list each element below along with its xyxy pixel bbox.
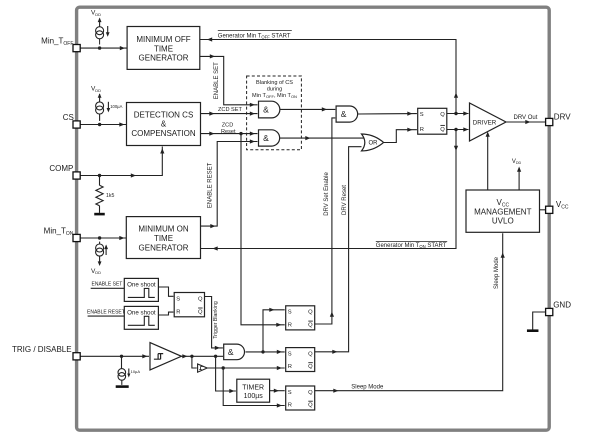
svg-text:R: R xyxy=(288,323,292,329)
svg-text:&: & xyxy=(161,120,167,129)
pin DRV xyxy=(546,118,553,125)
wire OR output to latch R xyxy=(384,128,417,143)
svg-text:Q: Q xyxy=(308,390,313,396)
block one shoot B xyxy=(124,306,158,329)
wire buffer output to SR3 R xyxy=(207,366,285,370)
wire AND4 output to SR3 S xyxy=(246,350,285,354)
wire VCC pin to block xyxy=(540,209,546,211)
svg-text:Generator Min TON START: Generator Min TON START xyxy=(376,243,447,249)
node CS junction xyxy=(98,123,101,126)
svg-text:Generator Min TOFF START: Generator Min TOFF START xyxy=(218,33,291,39)
net label Generator Min T_ON START xyxy=(376,241,447,249)
svg-text:R: R xyxy=(420,127,424,133)
svg-text:Blanking of CS: Blanking of CS xyxy=(256,80,293,86)
pin Min_T_ON xyxy=(73,234,80,241)
schmitt trigger U8 xyxy=(150,343,181,370)
wire latch Q to DRIVER xyxy=(447,111,469,115)
svg-text:Trigger Blanking: Trigger Blanking xyxy=(213,301,219,339)
svg-text:DRIVER: DRIVER xyxy=(473,119,497,126)
svg-text:DRV: DRV xyxy=(554,113,571,122)
svg-text:S: S xyxy=(288,351,292,357)
svg-text:GND: GND xyxy=(553,301,571,310)
svg-text:TIME: TIME xyxy=(154,234,173,243)
net label Sleep Mode xyxy=(351,384,384,390)
wire ZCD SET xyxy=(201,112,258,116)
net label ENABLE SET (one shoot input) xyxy=(92,282,123,288)
wire AND1 output to AND3 xyxy=(280,107,335,111)
svg-text:Sleep Mode: Sleep Mode xyxy=(351,384,384,390)
wire AND2 output to OR1 xyxy=(280,136,364,140)
svg-text:GENERATOR: GENERATOR xyxy=(139,54,189,63)
power V_DD label (I1) xyxy=(91,10,101,17)
power V_DD label (VCC management) xyxy=(512,159,522,165)
ground (R1) xyxy=(94,213,105,216)
svg-text:Q: Q xyxy=(440,112,445,118)
svg-text:Q: Q xyxy=(440,127,445,133)
wire ZCD Reset to lower latch R (down at x=241) xyxy=(241,134,285,327)
net label DRV Set Enable (vertical) xyxy=(324,172,330,216)
SR latch U5 (DRV latch) xyxy=(418,108,447,134)
svg-text:ENABLE RESET: ENABLE RESET xyxy=(208,162,214,208)
current source I2 (CS, 100uA) xyxy=(96,93,123,121)
current source I4 (TRIG, 10uA) xyxy=(118,356,140,385)
AND gate U1 (blanking, upper) xyxy=(259,101,280,118)
svg-text:DETECTION CS: DETECTION CS xyxy=(134,110,194,119)
pin label TRIG / DISABLE xyxy=(12,345,72,354)
node buffer out junction xyxy=(222,366,225,369)
SR latch U13 (sleep latch) xyxy=(286,386,315,410)
svg-text:ENABLE SET: ENABLE SET xyxy=(92,282,123,288)
svg-text:DRV Set Enable: DRV Set Enable xyxy=(324,172,330,216)
pin label CS xyxy=(63,113,74,122)
node Min_T_ON junction xyxy=(98,236,101,239)
svg-text:&: & xyxy=(228,347,234,357)
block MINIMUM ON TIME GENERATOR xyxy=(126,217,200,259)
net label ZCD Reset xyxy=(221,122,236,135)
node COMP junction xyxy=(98,174,101,177)
wire V_DD from VCC management xyxy=(517,167,521,191)
net label DRV Out xyxy=(514,115,538,121)
svg-text:R: R xyxy=(288,364,292,370)
svg-text:R: R xyxy=(288,403,292,409)
svg-text:COMPENSATION: COMPENSATION xyxy=(131,129,196,138)
ground (GND pin) xyxy=(527,329,539,332)
pin label GND xyxy=(553,301,571,310)
power V_DD label (I2) xyxy=(91,86,101,93)
current source I1 (Min_T_OFF) xyxy=(96,18,110,45)
svg-text:Q: Q xyxy=(308,403,313,409)
svg-text:Q: Q xyxy=(308,323,313,329)
svg-text:Reset: Reset xyxy=(221,129,236,135)
node schmitt out junction 1 xyxy=(190,355,193,358)
svg-text:&: & xyxy=(341,109,347,119)
wire to TIMER xyxy=(216,356,236,393)
svg-text:S: S xyxy=(288,310,292,316)
svg-text:One shoot: One shoot xyxy=(127,282,156,289)
wire Generator Min T_ON START (from DRV latch Qbar down and left into MIN ON GEN) xyxy=(201,131,459,251)
svg-text:&: & xyxy=(263,133,269,143)
pin CS wire xyxy=(80,122,127,126)
net label ENABLE RESET (vertical) xyxy=(208,162,214,208)
wire schmitt output xyxy=(181,354,223,358)
block V_CC MANAGEMENT UVLO xyxy=(466,190,540,232)
pin COMP xyxy=(73,172,80,179)
svg-text:UVLO: UVLO xyxy=(492,217,514,226)
svg-text:S: S xyxy=(288,390,292,396)
node Q junction xyxy=(454,112,457,115)
svg-text:DRV Out: DRV Out xyxy=(514,115,538,121)
wire latch Qbar to DRIVER xyxy=(447,127,469,131)
SR latch U12 (DRV reset latch) xyxy=(286,348,315,372)
pin Min_T_ON wire xyxy=(80,236,127,240)
wire GND to ground xyxy=(533,312,546,330)
current source I3 (Min_T_ON) xyxy=(96,242,108,266)
wire SR2 Qbar to DRV Set Enable xyxy=(315,323,332,325)
svg-text:One shoot: One shoot xyxy=(127,310,156,317)
svg-text:COMP: COMP xyxy=(49,164,73,173)
svg-text:10µA: 10µA xyxy=(131,369,141,374)
pin CS xyxy=(73,121,80,128)
svg-text:MINIMUM ON: MINIMUM ON xyxy=(138,225,188,234)
pin TRIG/DISABLE xyxy=(73,353,80,360)
buffer U6 DRIVER xyxy=(470,103,507,141)
svg-text:MANAGEMENT: MANAGEMENT xyxy=(474,207,531,216)
pin COMP wire (right and up into DETECTION CS) xyxy=(80,147,165,178)
dashed box Blanking of CS during Min T_OFF / Min T_ON xyxy=(247,76,302,150)
svg-text:DRV Reset: DRV Reset xyxy=(342,185,348,215)
svg-text:OR: OR xyxy=(368,141,378,147)
svg-text:S: S xyxy=(176,296,180,302)
svg-text:1k5: 1k5 xyxy=(106,193,114,199)
net label Trigger Blanking (vertical) xyxy=(213,301,219,339)
svg-text:ZCD SET: ZCD SET xyxy=(218,107,243,113)
svg-text:R: R xyxy=(176,309,180,315)
pin label DRV xyxy=(554,113,571,122)
wire VCC management to DRIVER xyxy=(486,132,490,191)
node schmitt out junction 2 xyxy=(214,355,217,358)
buffer U10 xyxy=(192,356,207,372)
AND gate U2 (blanking, lower) xyxy=(259,130,280,146)
node Qbar junction xyxy=(454,128,457,131)
svg-text:ENABLE SET: ENABLE SET xyxy=(214,62,220,99)
resistor R1 1k5 xyxy=(96,176,115,213)
block TIMER 100us xyxy=(237,379,270,402)
pin label COMP xyxy=(49,164,73,173)
wire DRV output xyxy=(506,120,546,124)
ground (I4) xyxy=(116,385,129,388)
svg-text:Q: Q xyxy=(198,296,203,302)
svg-text:TIME: TIME xyxy=(154,44,173,53)
node TRIG junction xyxy=(120,355,123,358)
svg-text:Q: Q xyxy=(308,310,313,316)
svg-text:TIMER: TIMER xyxy=(242,384,264,391)
net label Generator Min T_OFF START xyxy=(218,30,292,39)
svg-text:CS: CS xyxy=(63,113,74,122)
OR gate U4 (DRV reset) xyxy=(362,134,384,151)
node Min_T_OFF junction xyxy=(98,46,101,49)
svg-text:Min TOFF, Min TON: Min TOFF, Min TON xyxy=(252,93,297,99)
wire AND3 output to latch S xyxy=(358,112,417,116)
IC outer boundary box xyxy=(77,7,550,430)
power V_DD label (I3) xyxy=(91,268,101,275)
wire one shoot A to SR0 S xyxy=(158,287,173,296)
wire TIMER output to SR4 S xyxy=(270,389,285,393)
SR latch U11 (blanking latch) xyxy=(286,306,315,330)
pin TRIG/DISABLE wire xyxy=(80,354,149,358)
svg-text:Q: Q xyxy=(308,351,313,357)
pin label V_CC xyxy=(556,200,569,210)
wire Sleep Mode (SR4 Q to VCC management) xyxy=(315,233,505,392)
wire ENABLE SET stub xyxy=(91,287,125,289)
pin Min_T_OFF xyxy=(73,45,80,52)
pin GND xyxy=(546,308,553,315)
AND gate U9 (trigger AND) xyxy=(224,344,245,360)
wire ZCD Reset xyxy=(201,132,258,136)
net label ENABLE RESET (one shoot input) xyxy=(87,309,125,315)
pin label Min_T_OFF xyxy=(41,37,73,47)
net label ENABLE SET (vertical) xyxy=(214,62,220,99)
node AND4 output junction xyxy=(261,350,264,353)
svg-text:Q: Q xyxy=(198,309,203,315)
wire Generator Min T_OFF START (from DRV latch Q up and left into MIN OFF GEN) xyxy=(200,37,458,112)
svg-text:during: during xyxy=(267,87,283,93)
wire one shoot B to SR0 R xyxy=(158,312,173,315)
svg-text:100µs: 100µs xyxy=(244,393,264,400)
wire DRV Reset (from SR3 Q up to OR) xyxy=(315,147,362,354)
block one shoot A xyxy=(124,278,158,301)
wire buffer branch to SR4 R xyxy=(223,368,285,408)
svg-text:100µA: 100µA xyxy=(110,104,122,109)
block DETECTION CS & COMPENSATION xyxy=(127,103,201,146)
svg-text:MINIMUM OFF: MINIMUM OFF xyxy=(136,35,190,44)
wire Trigger Blanking (SR0 Q down to AND4) xyxy=(205,297,223,351)
wire DRV Set Enable (from SR2 Qbar up to AND3) xyxy=(315,118,336,324)
svg-text:&: & xyxy=(263,105,269,115)
wire ENABLE SET (MIN OFF GEN out, down to AND1) xyxy=(200,54,258,107)
svg-text:Sleep Mode: Sleep Mode xyxy=(494,256,500,289)
block MINIMUM OFF TIME GENERATOR xyxy=(127,27,200,70)
net label ZCD SET xyxy=(218,107,243,113)
svg-text:TRIG / DISABLE: TRIG / DISABLE xyxy=(12,345,72,354)
AND gate U3 (DRV set) xyxy=(336,106,358,122)
pin label Min_T_ON xyxy=(44,226,74,236)
pin V_CC xyxy=(546,206,553,213)
wire AND4 out branch up to SR2 S xyxy=(263,308,285,352)
svg-text:Q: Q xyxy=(308,364,313,370)
net label Sleep Mode (vertical) xyxy=(494,256,500,289)
SR latch U7 (trigger latch) xyxy=(174,293,204,317)
pin Min_T_OFF wire xyxy=(80,46,127,50)
wire ENABLE RESET stub xyxy=(88,315,125,317)
svg-text:GENERATOR: GENERATOR xyxy=(139,243,189,252)
svg-text:ENABLE RESET: ENABLE RESET xyxy=(87,309,125,315)
svg-text:S: S xyxy=(420,112,424,118)
wire ENABLE RESET (MIN ON GEN out, up to AND2) xyxy=(201,139,258,228)
node ZCD Reset junction xyxy=(239,132,242,135)
svg-text:ZCD: ZCD xyxy=(222,122,234,128)
net label DRV Reset (vertical) xyxy=(342,185,348,215)
